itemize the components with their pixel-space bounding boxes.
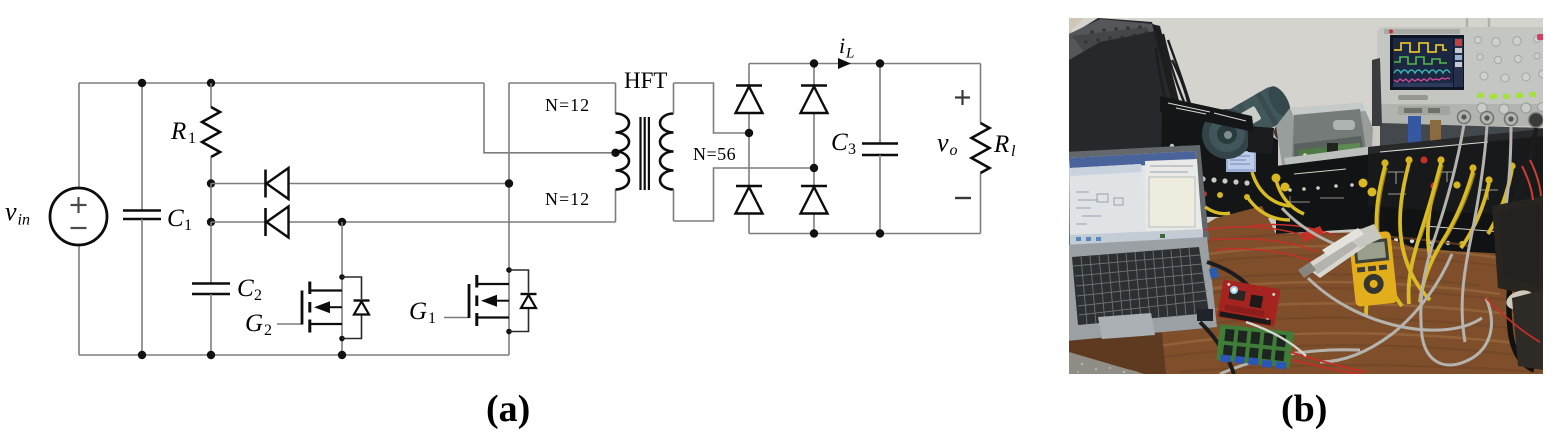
arrow iL: [838, 58, 851, 69]
label N12 lower: [545, 189, 590, 209]
motor face: [1202, 109, 1252, 159]
label plus output: [955, 90, 970, 105]
label G2: [245, 310, 272, 339]
svg-text:v: v: [5, 197, 17, 226]
under scope dark gap: [1380, 123, 1543, 148]
cables hanging from cabinet: [1156, 30, 1190, 106]
svg-text:3: 3: [848, 141, 856, 158]
svg-text:G: G: [409, 298, 427, 325]
wire between diode nodes: [210, 184, 212, 223]
label G1: [409, 298, 436, 327]
svg-text:v: v: [937, 128, 949, 157]
label Rl: [993, 131, 1016, 160]
resistor Rl: [972, 123, 990, 173]
body diode Q1: [521, 294, 537, 308]
body diode Q2: [354, 301, 370, 315]
diode D4: [736, 186, 763, 214]
yellow cables left: [1205, 172, 1304, 220]
black angled plate with white text: [1160, 96, 1254, 132]
svg-text:o: o: [950, 142, 958, 159]
black bracket under motor: [1248, 126, 1274, 154]
node Q1 upper row: [505, 179, 513, 187]
body diode Q1 branch: [509, 270, 529, 332]
node Q2 source dot: [339, 336, 345, 342]
capacitor C2: [192, 222, 230, 355]
oscilloscope: [1377, 18, 1547, 128]
svg-text:N=12: N=12: [545, 95, 590, 115]
label C3: [831, 129, 856, 158]
label iL: [839, 33, 854, 62]
body diode Q2 branch: [342, 277, 362, 339]
node bridge bottom right: [810, 229, 818, 237]
node bottom rail C1: [138, 351, 146, 359]
multimeter: [1348, 231, 1397, 307]
svg-text:C: C: [237, 275, 254, 302]
svg-text:C: C: [167, 205, 184, 232]
node Q2 drain dot: [339, 274, 345, 280]
svg-text:(a): (a): [486, 388, 530, 430]
diode D1: [266, 168, 289, 199]
transformer T1 core: [641, 117, 649, 190]
red PCB: [1217, 279, 1281, 326]
label minus output: [955, 197, 971, 199]
floor: [1069, 352, 1144, 374]
diode D5: [801, 86, 828, 114]
node secondary bottom junction: [810, 164, 818, 172]
wire bridge left leg: [748, 64, 750, 234]
wire bottom rail: [79, 354, 509, 356]
svg-text:2: 2: [254, 287, 262, 304]
motor teal: [1223, 82, 1315, 147]
transistor Q1: [469, 275, 509, 326]
wire secondary top to bridge: [674, 83, 750, 133]
svg-text:l: l: [1011, 143, 1016, 160]
svg-text:R: R: [170, 118, 186, 145]
wire lower diode row: [211, 221, 616, 223]
svg-text:R: R: [993, 131, 1009, 158]
label vin: [5, 197, 30, 229]
node top rail C1: [138, 79, 146, 87]
beige wall sliver left: [1069, 30, 1090, 70]
svg-text:in: in: [18, 212, 30, 229]
wire bridge top rail: [749, 63, 981, 65]
diode D2: [266, 207, 289, 238]
svg-text:1: 1: [188, 130, 196, 147]
svg-text:(b): (b): [1281, 388, 1327, 430]
node secondary top junction: [745, 129, 753, 137]
node C3 bottom: [876, 229, 884, 237]
photo panel b: [1064, 18, 1547, 374]
dark bag right: [1492, 196, 1543, 298]
desk wood: [1138, 206, 1543, 374]
transformer T1 primary winding: [616, 114, 630, 190]
desk front edge: [1069, 312, 1166, 374]
BNC row: [1458, 111, 1544, 128]
rusty parts behind motor: [1274, 121, 1304, 143]
node top rail R1: [207, 79, 215, 87]
caption a: [486, 388, 530, 430]
dark box right bottom: [1512, 290, 1543, 370]
diode D6: [801, 186, 828, 214]
transformer T1 primary lead wires: [615, 83, 617, 222]
resistor R1: [202, 83, 220, 184]
wire vin left vertical: [78, 83, 80, 355]
green PCB: [1216, 324, 1294, 370]
transformer T1 secondary winding: [660, 114, 674, 190]
label C2: [237, 275, 262, 304]
svg-text:N=56: N=56: [693, 144, 736, 164]
capacitor C3: [862, 64, 898, 234]
label N12 upper: [545, 95, 590, 115]
transistor Q2: [302, 282, 342, 333]
black cabinet top-left: [1069, 18, 1190, 170]
wire upper diode row: [211, 183, 509, 185]
node C3 top: [876, 59, 884, 67]
transistor Q1 gate lead: [444, 317, 469, 319]
caption b: [1281, 388, 1327, 430]
black instrument with blue LCD: [1160, 112, 1278, 218]
svg-text:1: 1: [184, 217, 192, 234]
yellow cable bundle right: [1366, 163, 1512, 316]
svg-text:N=12: N=12: [545, 189, 590, 209]
label vo: [937, 128, 958, 159]
node center tap: [611, 149, 619, 157]
wire top rail: [79, 82, 484, 84]
svg-text:2: 2: [264, 322, 272, 339]
label C1: [167, 205, 192, 234]
wire Q1 drain vertical: [508, 83, 510, 355]
transistor Q2 gate lead: [277, 323, 302, 325]
wire secondary bottom to bridge: [674, 168, 815, 221]
label N56: [693, 144, 736, 164]
thin red wires upper right of laptop: [1204, 224, 1336, 264]
node Q1 drain dot: [506, 267, 512, 273]
label R1: [170, 118, 196, 147]
wires bottom: [1290, 298, 1540, 374]
wire Q2 drain vertical: [341, 222, 343, 355]
black cables: [1200, 128, 1536, 374]
gray cables: [1220, 124, 1511, 374]
node bottom rail Q2: [338, 351, 346, 359]
scope knobs: [1475, 36, 1546, 82]
label HFT: [624, 68, 667, 93]
wire bridge right leg: [813, 64, 815, 234]
node Q1 source dot: [506, 329, 512, 335]
wire center tap from top rail: [484, 83, 616, 153]
node lower row Q2 drain: [338, 218, 346, 226]
svg-text:L: L: [845, 46, 854, 62]
wire primary top terminal: [509, 82, 616, 84]
svg-text:HFT: HFT: [624, 68, 667, 93]
transformer T1 secondary lead wires: [673, 83, 675, 221]
svg-text:i: i: [839, 33, 845, 58]
aluminum open chassis: [1276, 103, 1373, 234]
black FUENTE panel: [1368, 129, 1543, 250]
wire output right leg: [980, 64, 982, 234]
clamp probe white: [1298, 224, 1382, 278]
laptop: [1064, 145, 1219, 341]
node bottom rail C2: [207, 351, 215, 359]
node bridge top right: [810, 59, 818, 67]
node A upper diode junction: [207, 179, 215, 187]
node B lower diode junction: [207, 218, 215, 226]
wire bridge bottom rail: [749, 233, 981, 235]
capacitor C1: [123, 83, 161, 355]
diode D3: [736, 86, 763, 114]
svg-text:G: G: [245, 310, 263, 337]
voltage source Vin: [50, 188, 107, 245]
CARGA panel lower: [1368, 206, 1524, 264]
svg-text:1: 1: [428, 310, 436, 327]
svg-text:C: C: [831, 129, 848, 156]
